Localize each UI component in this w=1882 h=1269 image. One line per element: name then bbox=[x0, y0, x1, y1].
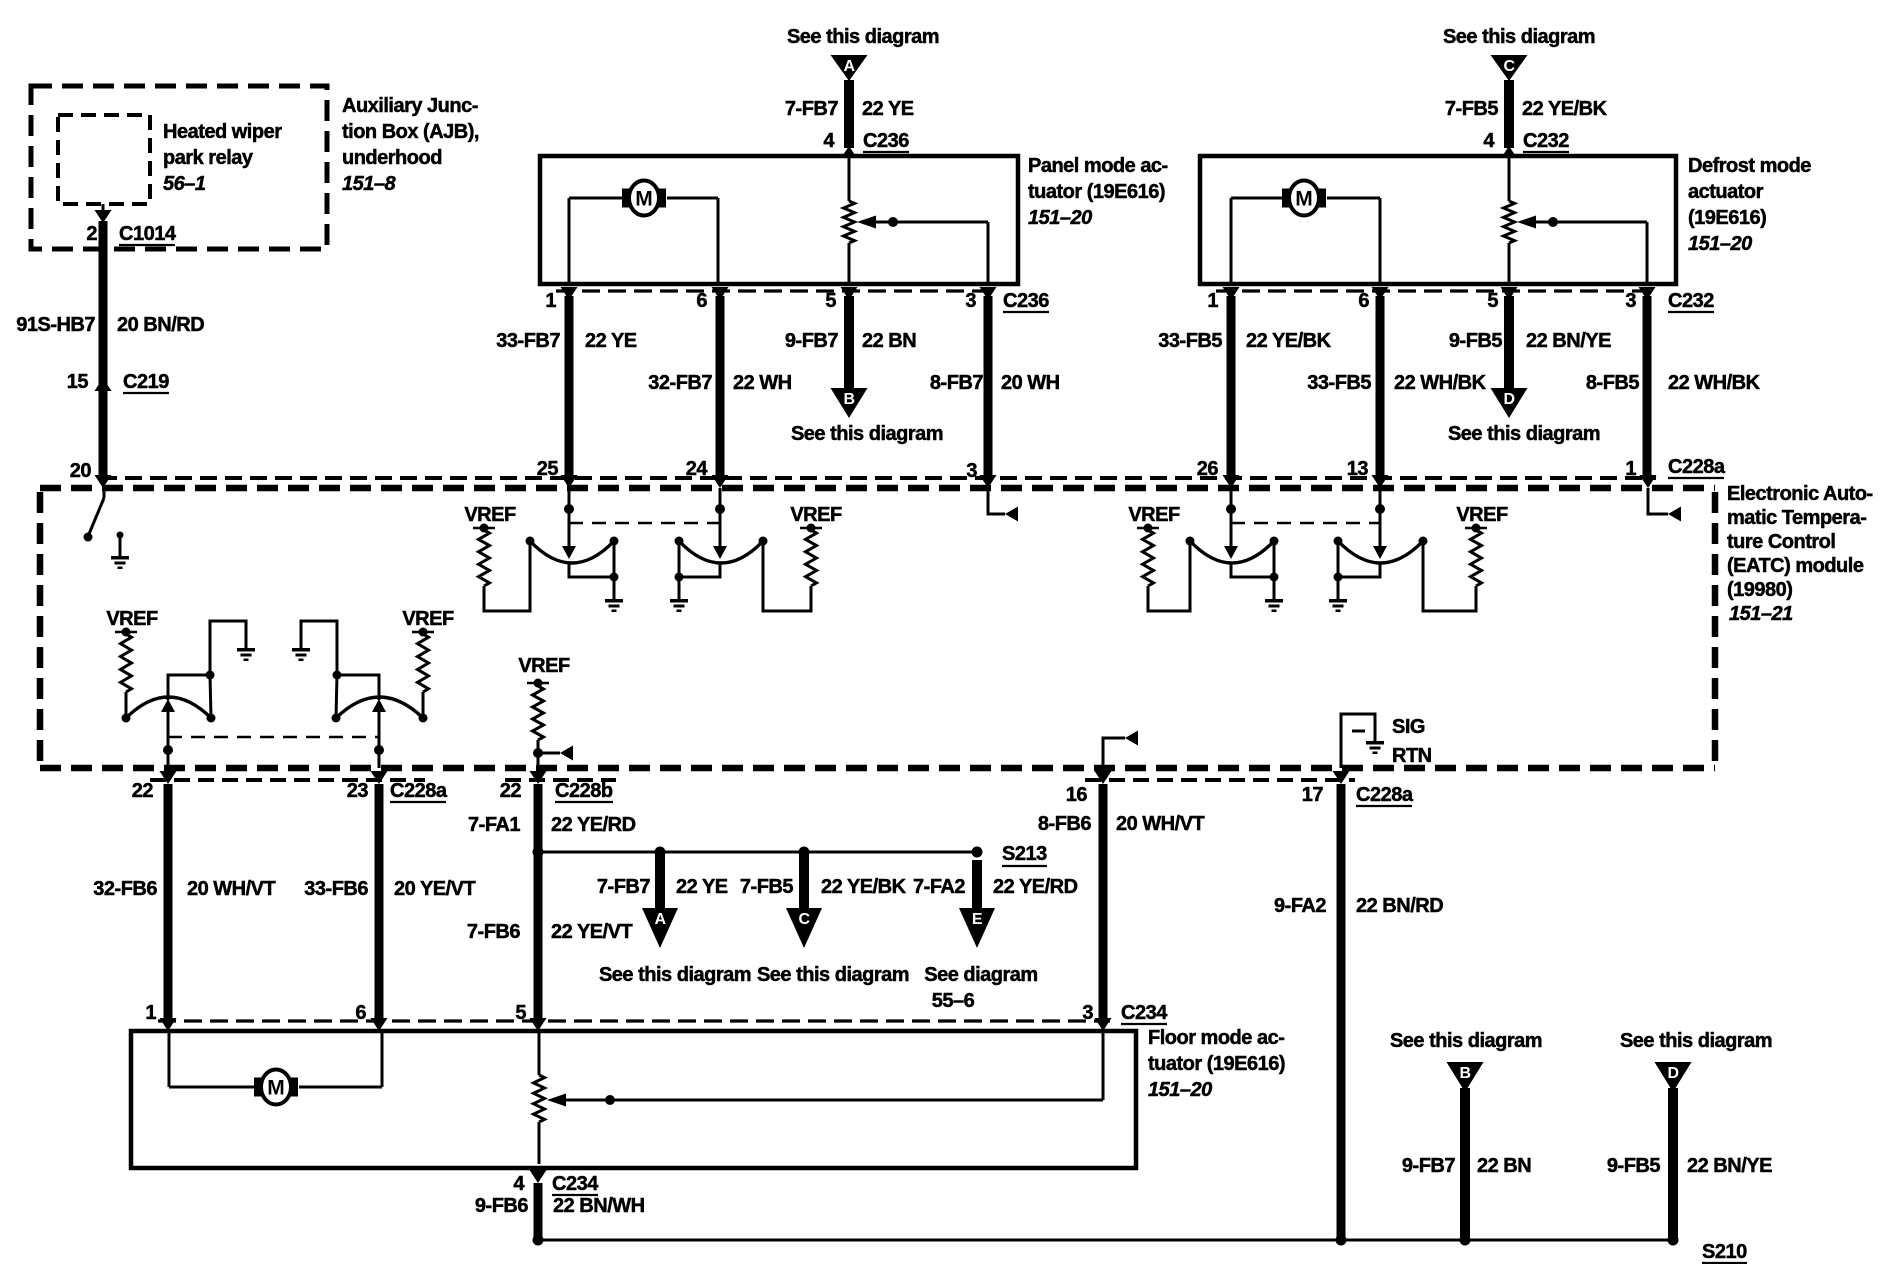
svg-text:See diagram: See diagram bbox=[924, 964, 1037, 986]
wire: defrost motor left lead bbox=[1231, 198, 1278, 284]
wire 9-FA2 22 BN/RD (EATC 17 to S210) bbox=[1337, 784, 1346, 1240]
svg-text:32-FB7: 32-FB7 bbox=[648, 372, 712, 394]
connector C236 dashed line bbox=[556, 289, 995, 292]
label: 15 C219 bbox=[67, 371, 169, 393]
svg-text:C: C bbox=[1503, 58, 1515, 75]
svg-text:Floor mode ac-: Floor mode ac- bbox=[1148, 1027, 1284, 1049]
svg-text:8-FB6: 8-FB6 bbox=[1038, 813, 1091, 835]
svg-text:22 YE/RD: 22 YE/RD bbox=[551, 814, 636, 836]
label: 2 C1014 bbox=[86, 223, 176, 245]
track tap (pin 22) bbox=[168, 671, 215, 719]
connector C228a dashed line (bottom right) bbox=[1085, 778, 1355, 782]
svg-text:VREF: VREF bbox=[1128, 504, 1180, 526]
svg-text:See this diagram: See this diagram bbox=[599, 964, 751, 986]
continuation arrow (C228b VREF) bbox=[560, 746, 573, 761]
wire: EATC pin 16 internal stub bbox=[1103, 738, 1125, 768]
off-page connector B (top) bbox=[831, 388, 868, 418]
wire 8-FB5 22 WH/BK (pin3 to EATC 1) bbox=[1643, 296, 1652, 476]
svg-text:See this diagram: See this diagram bbox=[1443, 26, 1595, 48]
svg-text:9-FB5: 9-FB5 bbox=[1449, 330, 1502, 352]
VREF (left of pin 22) bbox=[106, 608, 158, 637]
continuation arrow (pin 1) bbox=[1668, 507, 1681, 522]
svg-text:3: 3 bbox=[966, 460, 977, 482]
label: 33-FB6 / 20 YE/VT bbox=[304, 878, 475, 900]
wire: floor motor right lead bbox=[299, 1031, 382, 1087]
label: pin 20 bbox=[70, 460, 92, 482]
svg-text:15: 15 bbox=[67, 371, 89, 393]
svg-text:Heated wiper: Heated wiper bbox=[163, 121, 282, 143]
wire 7-FB7 22 YE (to A) bbox=[655, 852, 665, 910]
svg-text:C234: C234 bbox=[552, 1173, 599, 1195]
track to ground loop (pin 22) bbox=[210, 621, 246, 675]
wiper arrow: defrost pot bbox=[1517, 216, 1536, 229]
mechanical link (pins 26-13, dashed) bbox=[1231, 522, 1380, 525]
label: 32-FB7 / 22 WH bbox=[648, 372, 791, 394]
label: 7-FA1 / 22 YE/RD bbox=[468, 814, 636, 836]
svg-text:underhood: underhood bbox=[342, 147, 442, 169]
label: 7-FB7 / 22 YE bbox=[785, 98, 914, 120]
potentiometer: floor mode position sensor bbox=[534, 1075, 545, 1122]
off-page connector A (mid) bbox=[642, 908, 678, 948]
svg-text:7-FB6: 7-FB6 bbox=[467, 921, 520, 943]
wire: panel wiper to pin 3 side bbox=[876, 217, 988, 284]
ground (pin 23 track) bbox=[292, 648, 310, 661]
auxiliary junction box (AJB) dashed enclosure bbox=[31, 86, 327, 249]
wire: EATC pin 3 internal stub bbox=[988, 488, 1005, 514]
labels: pins 1 6 5 (C234) bbox=[145, 1002, 526, 1024]
wire 9-FB7 22 BN (pin5 to B) bbox=[844, 296, 854, 388]
svg-text:See this diagram: See this diagram bbox=[1620, 1030, 1772, 1052]
label: 9-FB7 / 22 BN bbox=[1402, 1155, 1531, 1177]
svg-text:See this diagram: See this diagram bbox=[1390, 1030, 1542, 1052]
VREF (left of pin 25) bbox=[464, 504, 516, 533]
track tap to ground (pin 26) bbox=[1231, 541, 1279, 599]
off-page connector D (top) bbox=[1491, 388, 1528, 418]
wire: floor wiper to pin 3 bbox=[566, 1031, 1103, 1105]
wire: pin 20 stub inside EATC bbox=[103, 488, 106, 498]
label: 9-FB5 / 22 BN/YE bbox=[1607, 1155, 1772, 1177]
wire 8-FB6 20 WH/VT (EATC 16 to C234 3) bbox=[1099, 784, 1108, 1018]
svg-text:M: M bbox=[635, 188, 653, 211]
svg-text:C219: C219 bbox=[123, 371, 169, 393]
svg-text:22 WH/BK: 22 WH/BK bbox=[1668, 372, 1761, 394]
svg-text:tion Box (AJB),: tion Box (AJB), bbox=[342, 121, 479, 143]
arrowheads at EATC bottom pins bbox=[160, 771, 1350, 784]
svg-text:20 WH/VT: 20 WH/VT bbox=[1116, 813, 1205, 835]
svg-text:20 BN/RD: 20 BN/RD bbox=[117, 314, 204, 336]
ground (pin 20 switch) bbox=[111, 556, 129, 569]
resistor VREF-track (pin 24) bbox=[806, 530, 817, 586]
wire: VREF resistor to track end (pin 22) bbox=[125, 692, 128, 718]
wire: defrost pot bottom lead bbox=[1508, 243, 1511, 284]
label: SIG RTN bbox=[1392, 716, 1432, 767]
svg-text:1: 1 bbox=[1625, 458, 1636, 480]
svg-text:55–6: 55–6 bbox=[932, 990, 975, 1012]
svg-text:7-FB7: 7-FB7 bbox=[785, 98, 838, 120]
wire: pin 25 lead inside EATC bbox=[564, 488, 574, 546]
label: C236 (bottom) bbox=[1003, 290, 1049, 312]
wire 9-FB5 22 BN/YE (pin5 to D) bbox=[1504, 296, 1514, 388]
connector C219 arrowhead bbox=[95, 378, 112, 391]
label: 9-FB7 / 22 BN bbox=[785, 330, 916, 352]
svg-text:9-FB7: 9-FB7 bbox=[1402, 1155, 1455, 1177]
label: 33-FB5 / 22 YE/BK bbox=[1158, 330, 1331, 352]
wire: defrost motor right lead bbox=[1327, 198, 1380, 284]
label: 7-FA2 / 22 YE/RD bbox=[913, 876, 1078, 898]
wire: panel pin4 lead inside box bbox=[848, 158, 851, 201]
svg-text:26: 26 bbox=[1197, 458, 1219, 480]
label: 8-FB7 / 20 WH bbox=[930, 372, 1060, 394]
svg-text:56–1: 56–1 bbox=[163, 173, 206, 195]
mechanical link (pins 25-24, dashed) bbox=[569, 522, 720, 525]
svg-text:22: 22 bbox=[500, 780, 522, 802]
svg-text:See this diagram: See this diagram bbox=[757, 964, 909, 986]
svg-text:20 YE/VT: 20 YE/VT bbox=[394, 878, 476, 900]
pot track arc (pin 26) bbox=[1186, 537, 1279, 564]
pot track arc (pin 25) bbox=[526, 537, 619, 564]
wire: SIG RTN bracket (pin 17) bbox=[1341, 714, 1375, 768]
label: See this diagram (B) bbox=[791, 423, 943, 445]
svg-text:VREF: VREF bbox=[790, 504, 842, 526]
svg-text:22 BN: 22 BN bbox=[1477, 1155, 1531, 1177]
svg-text:22 WH: 22 WH bbox=[733, 372, 792, 394]
wire: pin 22 lead inside EATC bbox=[163, 712, 173, 768]
motor M panel bbox=[618, 181, 666, 216]
ground (pin 13 track) bbox=[1329, 599, 1347, 612]
svg-text:C228b: C228b bbox=[555, 780, 613, 802]
svg-text:8-FB7: 8-FB7 bbox=[930, 372, 983, 394]
svg-text:D: D bbox=[1503, 391, 1514, 408]
label: 7-FB5 / 22 YE/BK (mid) bbox=[740, 876, 907, 898]
continuation arrow (pin 3) bbox=[1005, 507, 1018, 522]
resistor VREF-track (pin 22) bbox=[121, 634, 132, 692]
ground (SIG RTN) bbox=[1366, 741, 1384, 754]
label: S213 bbox=[1002, 843, 1047, 866]
labels: 16 / 17 C228a bbox=[1066, 784, 1414, 806]
svg-text:22 YE/BK: 22 YE/BK bbox=[1522, 98, 1608, 120]
svg-text:C228a: C228a bbox=[1668, 456, 1726, 478]
connector C232 dashed line bbox=[1216, 289, 1655, 292]
wire 33-FB5 22 WH/BK (pin6 to EATC 13) bbox=[1376, 296, 1385, 476]
svg-text:(EATC) module: (EATC) module bbox=[1727, 555, 1864, 577]
svg-text:VREF: VREF bbox=[402, 608, 454, 630]
arrowhead: C234 pin 4 bbox=[530, 1170, 547, 1183]
svg-text:33-FB5: 33-FB5 bbox=[1307, 372, 1371, 394]
wire 33-FB6 20 YE/VT (EATC 23 to floor pin 6) bbox=[375, 784, 384, 1018]
svg-text:4: 4 bbox=[1483, 130, 1495, 152]
label: Panel mode actuator (19E616) 151-20 bbox=[1028, 155, 1168, 229]
svg-text:22 BN: 22 BN bbox=[862, 330, 916, 352]
svg-text:2: 2 bbox=[86, 223, 97, 245]
arrowheads at EATC top pins bbox=[95, 475, 1657, 488]
svg-text:151–20: 151–20 bbox=[1688, 233, 1752, 255]
svg-text:13: 13 bbox=[1347, 458, 1369, 480]
svg-text:B: B bbox=[843, 391, 854, 408]
svg-text:RTN: RTN bbox=[1392, 745, 1432, 767]
svg-text:A: A bbox=[843, 58, 855, 75]
wire: pin 26 lead inside EATC bbox=[1226, 488, 1236, 546]
wire: floor pot bottom lead bbox=[538, 1122, 541, 1164]
label: Auxiliary Junction Box (AJB), underhood 151-8 bbox=[342, 95, 479, 195]
label: 7-FB7 / 22 YE (mid) bbox=[597, 876, 728, 898]
svg-text:VREF: VREF bbox=[518, 655, 570, 677]
label: Heated wiper park relay 56-1 bbox=[163, 121, 282, 195]
svg-text:C: C bbox=[798, 911, 810, 928]
svg-text:3: 3 bbox=[1082, 1002, 1093, 1024]
ground (pin 24 track) bbox=[670, 599, 688, 612]
track tap to ground (pin 24) bbox=[675, 541, 721, 599]
svg-text:24: 24 bbox=[686, 458, 709, 480]
wiper arrow (pin 23, up) bbox=[372, 699, 386, 712]
switch blade (pin 20) bbox=[84, 498, 105, 542]
off-page connector C bbox=[1491, 55, 1528, 81]
heated wiper park relay K? dashed box bbox=[58, 115, 150, 204]
svg-text:4: 4 bbox=[513, 1173, 525, 1195]
wire: floor pin5 lead inside box bbox=[538, 1031, 541, 1075]
svg-text:151–21: 151–21 bbox=[1729, 603, 1793, 625]
svg-text:22 YE/BK: 22 YE/BK bbox=[821, 876, 907, 898]
wire 7-FB7 22 YE from A to C236 pin 4 bbox=[844, 80, 854, 148]
resistor VREF (C228b pin 22) bbox=[533, 686, 544, 740]
svg-text:22 BN/YE: 22 BN/YE bbox=[1526, 330, 1611, 352]
ground contact stub bbox=[117, 532, 124, 557]
wire: panel pot bottom lead bbox=[848, 243, 851, 284]
label: 9-FB5 / 22 BN/YE bbox=[1449, 330, 1611, 352]
label: 7-FB6 / 22 YE/VT bbox=[467, 921, 633, 943]
resistor VREF-track (pin 23) bbox=[418, 634, 429, 692]
svg-text:22 BN/YE: 22 BN/YE bbox=[1687, 1155, 1772, 1177]
svg-text:M: M bbox=[1295, 188, 1313, 211]
label: See this diagram (A) bbox=[787, 26, 939, 48]
off-page connector A bbox=[831, 55, 868, 81]
minus tick (SIG RTN) bbox=[1352, 730, 1365, 733]
off-page connector D (bottom) bbox=[1655, 1062, 1692, 1092]
svg-text:9-FB7: 9-FB7 bbox=[785, 330, 838, 352]
label: Defrost mode actuator (19E616) 151-20 bbox=[1688, 155, 1811, 255]
label: 91S-HB7 20 BN/RD bbox=[16, 314, 204, 336]
wire: panel motor left lead bbox=[569, 198, 618, 284]
label: See this diagram (A mid) bbox=[599, 964, 751, 986]
svg-text:9-FA2: 9-FA2 bbox=[1274, 895, 1326, 917]
svg-text:tuator (19E616): tuator (19E616) bbox=[1028, 181, 1165, 203]
track tap to ground (pin 13) bbox=[1334, 541, 1381, 599]
svg-text:6: 6 bbox=[696, 290, 707, 312]
svg-text:91S-HB7: 91S-HB7 bbox=[16, 314, 95, 336]
svg-text:22 BN/WH: 22 BN/WH bbox=[553, 1195, 645, 1217]
svg-text:151–8: 151–8 bbox=[342, 173, 396, 195]
arrowheads: C234 pins 1,6,5 bbox=[160, 1018, 547, 1031]
svg-text:Electronic Auto-: Electronic Auto- bbox=[1727, 483, 1873, 505]
wire: defrost wiper to pin 3 side bbox=[1536, 217, 1647, 284]
resistor VREF-track (pin 13) bbox=[1471, 530, 1482, 586]
svg-text:33-FB7: 33-FB7 bbox=[496, 330, 560, 352]
svg-text:22 YE/RD: 22 YE/RD bbox=[993, 876, 1078, 898]
off-page connector B (bottom) bbox=[1447, 1062, 1484, 1092]
label: 8-FB5 / 22 WH/BK bbox=[1586, 372, 1761, 394]
label: 4 C234 (bottom) bbox=[513, 1173, 599, 1195]
svg-text:25: 25 bbox=[537, 458, 559, 480]
label: 4 C236 bbox=[823, 130, 909, 152]
resistor VREF-track (pin 25) bbox=[479, 530, 490, 586]
resistor VREF-track (pin 26) bbox=[1143, 530, 1154, 586]
label: See diagram 55-6 bbox=[924, 964, 1037, 1012]
VREF (right of pin 13) bbox=[1456, 504, 1508, 533]
wire 9-FB5 22 BN/YE (D to S210) bbox=[1668, 1088, 1678, 1240]
svg-text:tuator (19E616): tuator (19E616) bbox=[1148, 1053, 1285, 1075]
label: 4 C232 bbox=[1483, 130, 1569, 152]
VREF (right of pin 24) bbox=[790, 504, 842, 533]
svg-text:Auxiliary Junc-: Auxiliary Junc- bbox=[342, 95, 478, 117]
svg-text:9-FB5: 9-FB5 bbox=[1607, 1155, 1660, 1177]
wire 7-FA1 22 YE/RD (EATC C228b 22 to floor pin 5) bbox=[534, 784, 543, 1018]
arrowheads: C232 pins 1,6,5,3 bbox=[1223, 287, 1656, 300]
potentiometer: panel mode position sensor bbox=[844, 201, 855, 243]
wire: VREF resistor to track end (pin 24) bbox=[763, 541, 811, 611]
wire 9-FB7 22 BN (B to S210) bbox=[1460, 1088, 1470, 1240]
VREF (above C228b pin 22) bbox=[518, 655, 570, 688]
pot track arc (pin 13) bbox=[1334, 537, 1428, 564]
wire 33-FB5 22 YE/BK (pin1 to EATC 26) bbox=[1227, 296, 1236, 476]
svg-text:VREF: VREF bbox=[106, 608, 158, 630]
labels: 22 23 C228a 22 C228b bbox=[132, 780, 613, 802]
label: Floor mode actuator (19E616) 151-20 bbox=[1148, 1027, 1285, 1101]
wire 9-FB6 22 BN/WH (C234 4 to S210) bbox=[534, 1183, 543, 1240]
EATC module border (right) bbox=[1712, 492, 1719, 764]
labels: pins 1 6 5 3 (C236) bbox=[545, 290, 976, 312]
svg-text:22 YE: 22 YE bbox=[862, 98, 914, 120]
svg-text:ture Control: ture Control bbox=[1727, 531, 1835, 553]
ground (pin 26 track) bbox=[1265, 599, 1283, 612]
connector dashed line (top, C228a/C236 row) bbox=[100, 476, 1656, 480]
wire 32-FB7 22 WH (pin6 to EATC 24) bbox=[716, 296, 725, 476]
label: 32-FB6 / 20 WH/VT bbox=[93, 878, 275, 900]
ground (pin 25 track) bbox=[605, 599, 623, 612]
arrowhead: C234 pin 3 bbox=[1095, 1018, 1112, 1031]
pot track arc (pin 22) bbox=[122, 697, 216, 723]
svg-text:C232: C232 bbox=[1523, 130, 1569, 152]
label: See this diagram (D bottom) bbox=[1620, 1030, 1772, 1052]
svg-text:SIG: SIG bbox=[1392, 716, 1425, 738]
continuation stub (C228b VREF) bbox=[538, 752, 560, 755]
wire: floor motor left lead bbox=[169, 1031, 250, 1087]
label: See this diagram (C) bbox=[1443, 26, 1595, 48]
svg-text:20: 20 bbox=[70, 460, 92, 482]
potentiometer: defrost mode position sensor bbox=[1504, 201, 1515, 243]
label: 7-FB5 / 22 YE/BK bbox=[1445, 98, 1608, 120]
svg-text:4: 4 bbox=[823, 130, 835, 152]
label: 9-FB6 / 22 BN/WH bbox=[475, 1195, 645, 1217]
connector C232 pin 4 arrowhead bbox=[1501, 146, 1517, 158]
pot track arc (pin 23) bbox=[332, 697, 428, 723]
svg-text:22 BN/RD: 22 BN/RD bbox=[1356, 895, 1443, 917]
svg-text:Defrost mode: Defrost mode bbox=[1688, 155, 1811, 177]
mechanical link (pins 22-23, dashed) bbox=[168, 736, 379, 739]
labels: pins 1 6 5 3 (C232) bbox=[1207, 290, 1636, 312]
wire 33-FB7 22 YE (pin1 to EATC 25) bbox=[565, 296, 574, 476]
panel mode actuator (19E616) box bbox=[540, 156, 1018, 284]
svg-text:S210: S210 bbox=[1702, 1241, 1747, 1263]
EATC module border (top) bbox=[40, 485, 1715, 492]
svg-text:Panel mode ac-: Panel mode ac- bbox=[1028, 155, 1168, 177]
wire: VREF resistor to track end (pin 25) bbox=[484, 541, 530, 611]
svg-text:C228a: C228a bbox=[1356, 784, 1414, 806]
label: 33-FB5 / 22 WH/BK bbox=[1307, 372, 1486, 394]
svg-text:22: 22 bbox=[132, 780, 154, 802]
label: 8-FB6 / 20 WH/VT bbox=[1038, 813, 1205, 835]
VREF (right of pin 23) bbox=[402, 608, 454, 637]
wire 32-FB6 20 WH/VT (EATC 22 to floor pin 1) bbox=[164, 784, 173, 1018]
svg-text:5: 5 bbox=[515, 1002, 526, 1024]
svg-text:VREF: VREF bbox=[1456, 504, 1508, 526]
svg-text:park relay: park relay bbox=[163, 147, 254, 169]
svg-text:16: 16 bbox=[1066, 784, 1088, 806]
svg-text:(19980): (19980) bbox=[1727, 579, 1792, 601]
wire: EATC pin 1 internal stub bbox=[1648, 488, 1668, 514]
svg-text:See this diagram: See this diagram bbox=[787, 26, 939, 48]
svg-text:7-FA2: 7-FA2 bbox=[913, 876, 965, 898]
wiper arrow (pin 25) bbox=[562, 546, 576, 559]
wiper arrow (pin 24) bbox=[713, 546, 727, 559]
svg-text:1: 1 bbox=[145, 1002, 156, 1024]
track tap (pin 23) bbox=[333, 671, 380, 719]
svg-text:8-FB5: 8-FB5 bbox=[1586, 372, 1639, 394]
svg-text:See this diagram: See this diagram bbox=[791, 423, 943, 445]
svg-text:33-FB5: 33-FB5 bbox=[1158, 330, 1222, 352]
connector C236 pin 4 arrowhead bbox=[841, 146, 857, 158]
wire 91S-HB7 20 BN/RD (relay to EATC pin 20) bbox=[99, 221, 108, 476]
wire: VREF resistor to track end (pin 23) bbox=[422, 692, 425, 718]
svg-text:23: 23 bbox=[347, 780, 369, 802]
svg-text:matic Tempera-: matic Tempera- bbox=[1727, 507, 1866, 529]
svg-text:C232: C232 bbox=[1668, 290, 1714, 312]
floor mode actuator (19E616) box bbox=[131, 1031, 1136, 1168]
labels: EATC top pins 20 25 24 3 26 13 1 C228a bbox=[537, 456, 1726, 482]
wire 8-FB7 20 WH (pin3 to EATC 3) bbox=[984, 296, 993, 476]
wire: VREF resistor to pin 22 C228b bbox=[533, 740, 543, 768]
svg-text:151–20: 151–20 bbox=[1028, 207, 1092, 229]
motor M defrost bbox=[1278, 181, 1326, 216]
svg-text:A: A bbox=[654, 911, 666, 928]
arrowheads: C236 pins 1,6,5,3 bbox=[561, 287, 997, 300]
label: 9-FA2 / 22 BN/RD bbox=[1274, 895, 1443, 917]
wiper arrow: floor pot bbox=[547, 1094, 566, 1107]
svg-text:S213: S213 bbox=[1002, 843, 1047, 865]
svg-text:6: 6 bbox=[355, 1002, 366, 1024]
label: See this diagram (B bottom) bbox=[1390, 1030, 1542, 1052]
wire 7-FB5 22 YE/BK from C to C232 pin 4 bbox=[1504, 80, 1514, 148]
EATC module border (left) bbox=[37, 492, 44, 765]
svg-text:20 WH: 20 WH bbox=[1001, 372, 1060, 394]
label: S210 bbox=[1702, 1241, 1747, 1263]
splice wire to S213 bbox=[533, 847, 983, 858]
svg-text:VREF: VREF bbox=[464, 504, 516, 526]
connector C1014 pin 2 arrowhead bbox=[95, 210, 112, 223]
wire 7-FB5 22 YE/BK (to C) bbox=[799, 852, 809, 910]
splice S210 wire bbox=[533, 1235, 1679, 1246]
svg-text:1: 1 bbox=[545, 290, 556, 312]
label: See this diagram (C mid) bbox=[757, 964, 909, 986]
wire: defrost pin4 lead inside box bbox=[1508, 158, 1511, 201]
svg-text:22 YE: 22 YE bbox=[676, 876, 728, 898]
svg-text:B: B bbox=[1459, 1065, 1470, 1082]
EATC module border (bottom) bbox=[40, 765, 1715, 772]
wire: pin 24 lead inside EATC bbox=[715, 488, 725, 546]
pot track arc (pin 24) bbox=[675, 537, 768, 564]
svg-text:6: 6 bbox=[1358, 290, 1369, 312]
svg-text:C234: C234 bbox=[1121, 1002, 1168, 1024]
svg-text:22 WH/BK: 22 WH/BK bbox=[1394, 372, 1487, 394]
off-page connector C (mid) bbox=[786, 908, 822, 948]
